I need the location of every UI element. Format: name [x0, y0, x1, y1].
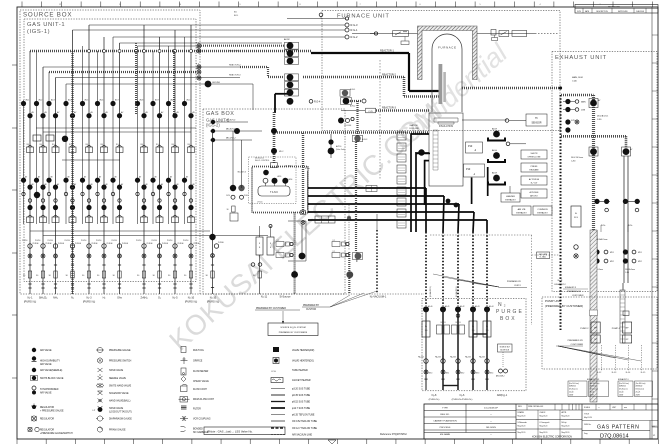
svg-text:PREPARED BY: PREPARED BY [507, 280, 522, 283]
hatched vertical x356 upper [355, 142, 357, 252]
svg-text:250W: 250W [636, 394, 641, 396]
svg-text:φ3.20 SUS TUBE: φ3.20 SUS TUBE [292, 389, 311, 391]
source system note box [268, 323, 318, 336]
exhaust main dotted line [560, 95, 562, 330]
svg-text:SOURCE N₂(),N₂ SYSTEM: SOURCE N₂(),N₂ SYSTEM [280, 327, 305, 329]
svg-text:FILTER: FILTER [193, 409, 201, 411]
hatched column x136 [135, 43, 137, 115]
elevator exhaust black pipes [411, 133, 429, 135]
svg-text:May.13.20: May.13.20 [518, 426, 526, 428]
svg-text:(SiH4/Cl2: (SiH4/Cl2 [619, 386, 626, 388]
purge line 3 [455, 306, 461, 312]
svg-text:R.G-2: R.G-2 [351, 35, 358, 39]
purge line 2 [440, 306, 446, 312]
gas line column 10 [174, 30, 176, 294]
svg-text:PURGE: PURGE [122, 243, 129, 245]
svg-text:R.G-1: R.G-1 [351, 28, 358, 32]
svg-text:HAND VALVE: HAND VALVE [109, 369, 124, 372]
svg-text:May.13.20: May.13.20 [518, 432, 526, 434]
purge line elbows [473, 333, 487, 335]
svg-text:PG50: PG50 [244, 195, 248, 197]
svg-text:N₂-14: N₂-14 [626, 372, 631, 374]
svg-text:COIL: COIL [271, 371, 277, 373]
svg-text:---: --- [490, 434, 492, 436]
svg-text:CUSTOMER: CUSTOMER [571, 344, 584, 346]
p10-2 box [466, 142, 483, 153]
svg-text:(SiH4/Cl2: (SiH4/Cl2 [590, 386, 597, 388]
svg-text:P10: P10 [466, 168, 471, 171]
gas unit-1 outline [24, 19, 196, 282]
svg-text:APPROVED: APPROVED [618, 10, 628, 13]
svg-text:B01-1: B01-1 [234, 15, 238, 17]
svg-text:PURGE: PURGE [496, 309, 524, 315]
title mini revision table [516, 409, 582, 411]
black pipes to purge box [308, 187, 426, 189]
svg-text:(PURG N₂/PURG N₂): (PURG N₂/PURG N₂) [452, 399, 473, 401]
exhaust spec boxes [568, 381, 587, 397]
svg-text:(LOCKOUT TAGOUT): (LOCKOUT TAGOUT) [109, 410, 132, 413]
svg-text:MV2: MV2 [610, 261, 614, 263]
frame right margin cells [651, 7, 653, 439]
svg-text:Fo: Fo [425, 326, 427, 328]
svg-text:PG250: PG250 [35, 240, 40, 242]
svg-text:REGULATOR: REGULATOR [40, 406, 54, 409]
big valve col4 [62, 136, 68, 142]
svg-text:1/1: 1/1 [653, 435, 656, 437]
svg-text:AV-40: AV-40 [428, 305, 433, 308]
svg-text:VALVE HEATER(DG): VALVE HEATER(DG) [292, 360, 314, 363]
reactor valve group 1 [287, 42, 294, 49]
svg-text:PURGE: PURGE [107, 243, 114, 245]
svg-text:F-2: F-2 [196, 47, 199, 49]
svg-text:BT/hm: BT/hm [305, 168, 310, 170]
tank feed valve box [271, 163, 278, 168]
exhaust small circles bottom [574, 245, 578, 249]
svg-text:PG250: PG250 [65, 240, 70, 242]
elevator bottom valves [446, 199, 451, 204]
svg-text:PRESS: PRESS [531, 166, 538, 168]
svg-text:REG NO.: REG NO. [440, 414, 450, 416]
svg-text:PURGE: PURGE [162, 243, 169, 245]
svg-text:FLOW CONT: FLOW CONT [193, 389, 207, 391]
svg-text:FLOW METER: FLOW METER [193, 371, 209, 373]
svg-text:PG250: PG250 [112, 240, 117, 242]
svg-text:N₂: N₂ [575, 213, 577, 215]
svg-text:REACTOR-1: REACTOR-1 [380, 50, 394, 53]
svg-text:PREPARED BY CUSTOMER: PREPARED BY CUSTOMER [256, 307, 286, 310]
exhaust pipe valve 1 [589, 99, 598, 108]
svg-text:F-5: F-5 [196, 74, 199, 76]
svg-text:PUMP UNIT: PUMP UNIT [545, 299, 562, 303]
svg-text:DG-Source): DG-Source) [636, 389, 645, 391]
svg-text:CV50: CV50 [226, 195, 230, 197]
svg-text:N₂: N₂ [498, 302, 508, 308]
svg-text:PG250: PG250 [183, 240, 188, 242]
reactor valve group 2 [287, 74, 294, 81]
purge line 4 [470, 306, 476, 312]
svg-text:AV-44: AV-44 [489, 305, 494, 308]
svg-text:PURGE: PURGE [46, 243, 53, 245]
svg-text:PG250: PG250 [22, 240, 27, 242]
watermark [163, 37, 513, 357]
svg-text:CR-3034: CR-3034 [344, 125, 351, 127]
svg-text:DIAPHRAGM GAUGE: DIAPHRAGM GAUGE [109, 418, 132, 421]
svg-text:M.Fujii: M.Fujii [562, 422, 568, 424]
bottom dashed boundary [200, 293, 424, 295]
svg-text:N₂-5: N₂-5 [173, 297, 179, 300]
cr valve [338, 118, 344, 124]
svg-text:(For DG Line): (For DG Line) [619, 383, 629, 385]
si-source valve cluster B [332, 242, 340, 247]
svg-text:(PURG N₂): (PURG N₂) [83, 301, 96, 304]
title right column [649, 421, 651, 440]
bus wire y84 [66, 83, 206, 85]
tank inner dashed box [249, 157, 296, 204]
svg-text:TITLE: TITLE [584, 414, 590, 416]
svg-text:EXHAUST: EXHAUST [516, 212, 527, 215]
svg-text:REVISIONS: REVISIONS [608, 7, 620, 9]
svg-text:PREPARED BY: PREPARED BY [303, 304, 320, 307]
svg-text:INSULATION: INSULATION [439, 125, 453, 128]
svg-text:COMMON: COMMON [537, 209, 548, 211]
svg-text:MS NAME: MS NAME [440, 433, 451, 436]
furnace area dashed divider [379, 60, 381, 180]
svg-text:T A N K: T A N K [270, 191, 278, 194]
svg-text:AIR VALVE(NEEDLE): AIR VALVE(NEEDLE) [40, 369, 62, 372]
svg-text:F-4: F-4 [196, 68, 199, 70]
fan to purge lines [433, 274, 499, 287]
svg-text:EXHAUST: EXHAUST [537, 212, 548, 215]
frame left ticks [12, 64, 17, 66]
purge line 5 [484, 306, 490, 312]
svg-text:BONDED: BONDED [193, 429, 203, 431]
svg-text:OD 12.7 TEFLON TUBE: OD 12.7 TEFLON TUBE [292, 428, 317, 430]
bus wire y30 [73, 29, 346, 31]
svg-text:(SiH4/Cl2: (SiH4/Cl2 [569, 386, 576, 388]
svg-text:AGV-2: AGV-2 [350, 105, 355, 108]
svg-text:EXHAUST UNIT: EXHAUST UNIT [555, 55, 607, 61]
svg-text:GROUND: GROUND [212, 82, 221, 84]
bus hatched pipe y72 [49, 71, 197, 73]
svg-text:O₂: O₂ [158, 297, 161, 300]
svg-text:SiH₂Cl₂: SiH₂Cl₂ [39, 297, 47, 300]
furnace unit outline [322, 11, 560, 131]
svg-text:APPR.: APPR. [562, 411, 568, 414]
svg-text:EXHAUST-1-3: EXHAUST-1-3 [587, 378, 599, 381]
svg-text:DG-Source): DG-Source) [619, 389, 628, 391]
n2 vacuum dotted line [376, 230, 378, 294]
svg-text:SWITS BLOCK VALVE: SWITS BLOCK VALVE [40, 377, 64, 380]
gas line column 8 [143, 25, 145, 294]
svg-text:SYM: SYM [577, 11, 581, 13]
purge box outline [422, 298, 526, 391]
svg-text:F U R N A C E: F U R N A C E [438, 46, 456, 50]
svg-text:Si-Source: Si-Source [280, 296, 292, 299]
svg-text:AV-42: AV-42 [460, 305, 465, 308]
frame top ticks [21, 2, 23, 8]
svg-text:φ6.35 TEFLON TUBE: φ6.35 TEFLON TUBE [292, 415, 315, 417]
svg-text:(Valve Tank): (Valve Tank) [336, 149, 345, 151]
svg-text:---: --- [490, 421, 492, 423]
svg-text:GAs: GAs [117, 297, 123, 300]
svg-text:VCR COUPLING: VCR COUPLING [193, 419, 211, 421]
svg-text:---: --- [490, 414, 492, 416]
svg-text:No-R: No-R [558, 280, 563, 282]
svg-text:DG-Source): DG-Source) [590, 389, 599, 391]
svg-text:N₂⇅: N₂⇅ [571, 119, 575, 122]
svg-text:MV1: MV1 [610, 252, 614, 254]
svg-text:EXHAUST-1: EXHAUST-1 [618, 378, 629, 381]
n2 flush box [571, 206, 581, 227]
hatched vertical x357 [356, 101, 358, 135]
svg-text:AV-2: AV-2 [39, 99, 43, 102]
reactor-1 black pipe [311, 52, 409, 54]
svg-text:PRESSURE GAUGE: PRESSURE GAUGE [109, 349, 131, 352]
svg-text:VACU ATM: VACU ATM [539, 253, 548, 256]
svg-text:HIGH DURABILITY: HIGH DURABILITY [40, 360, 60, 363]
svg-text:CHECK: CHECK [540, 412, 547, 414]
svg-text:PG250: PG250 [96, 240, 101, 242]
reactor-2 hatched pipe [303, 76, 404, 79]
exhaust unit outline [552, 52, 657, 292]
svg-text:MAIN: MAIN [581, 101, 586, 104]
bus wire y46 [138, 45, 200, 47]
bus wire y43 [120, 42, 283, 44]
heater valves with brackets [488, 138, 505, 141]
svg-text:AIR VALVE: AIR VALVE [40, 363, 52, 366]
title name [582, 420, 658, 422]
svg-text:PREPARED BY: PREPARED BY [568, 339, 584, 342]
svg-text:OPEN/CLOSE: OPEN/CLOSE [527, 157, 541, 159]
svg-text:PURGE: PURGE [178, 243, 185, 245]
svg-text:AIR VLV: AIR VLV [530, 195, 538, 198]
svg-text:(PREPARED BY CUSTOMER): (PREPARED BY CUSTOMER) [545, 304, 583, 308]
svg-text:SOURCE BOX: SOURCE BOX [23, 12, 72, 19]
svg-text:May.13.20: May.13.20 [562, 416, 570, 418]
svg-text:100: 100 [472, 330, 475, 332]
svg-text:N₂-11: N₂-11 [261, 296, 268, 299]
svg-text:PREPARED BY: PREPARED BY [567, 290, 582, 293]
svg-text:May.13.20: May.13.20 [562, 426, 570, 428]
svg-text:(PURG N₂): (PURG N₂) [185, 301, 198, 304]
av150 valve [330, 134, 332, 158]
svg-text:REACTOR-3: REACTOR-3 [382, 107, 396, 110]
gas line column 11 [190, 25, 192, 294]
svg-text:DDU A.5mm: DDU A.5mm [625, 268, 635, 271]
svg-text:⇅ N₂: ⇅ N₂ [628, 224, 633, 227]
svg-text:1/2→: 1/2→ [333, 251, 337, 253]
svg-text:B01: B01 [234, 12, 237, 14]
svg-text:REACTOR-2: REACTOR-2 [229, 64, 241, 67]
svg-text:SOLENOID VALVE: SOLENOID VALVE [109, 392, 129, 395]
title block [424, 404, 658, 439]
svg-text:REACTOR-1: REACTOR-1 [229, 50, 241, 53]
svg-text:MF-S/SIN: MF-S/SIN [486, 427, 496, 429]
svg-text:AV-H: AV-H [492, 172, 497, 175]
svg-text:REACTOR-2: REACTOR-2 [382, 74, 396, 77]
bus wire y25 [89, 24, 345, 26]
svg-text:※Note : GAS→(air)→ LSS Valve N: ※Note : GAS→(air)→ LSS Valve No. [207, 429, 253, 433]
svg-text:+ PRESSURE GAUGE: + PRESSURE GAUGE [40, 409, 64, 412]
tank [258, 186, 290, 196]
svg-text:REGULATOR: REGULATOR [40, 418, 54, 421]
svg-text:PURGE: PURGE [92, 243, 99, 245]
svg-text:BLOW KILN: BLOW KILN [500, 350, 510, 352]
hatch x303 tail symbol [301, 221, 305, 225]
bg sensor line [287, 18, 345, 20]
svg-text:PURGE: PURGE [75, 243, 82, 245]
svg-text:AV-5: AV-5 [85, 99, 89, 102]
svg-text:100: 100 [425, 330, 428, 332]
svg-text:R.G-4: R.G-4 [314, 101, 321, 104]
svg-text:AGV-1: AGV-1 [350, 88, 355, 91]
svg-text:AIR VALVE: AIR VALVE [40, 349, 52, 352]
furnace inner tube [432, 34, 462, 112]
svg-text:PRESSURE SWITCH: PRESSURE SWITCH [109, 361, 132, 363]
boat elevator housing [429, 113, 463, 186]
svg-text:(PURG N₂): (PURG N₂) [207, 301, 220, 304]
agv valve pair [342, 90, 348, 96]
exhaust hatched drop pipe [592, 95, 595, 232]
svg-text:A PURGE: A PURGE [530, 191, 540, 194]
svg-text:WATCH: WATCH [410, 124, 418, 127]
svg-text:N₂: N₂ [71, 297, 74, 300]
svg-text:RG253: RG253 [455, 322, 460, 324]
svg-text:SCALE: SCALE [584, 406, 591, 409]
svg-text:1/2→: 1/2→ [277, 240, 281, 242]
gas line column 2 [42, 67, 44, 294]
svg-text:φ6.35 SUS TUBE: φ6.35 SUS TUBE [292, 395, 311, 397]
gas line column 1 [29, 51, 31, 294]
svg-text:PURGE: PURGE [147, 243, 154, 245]
svg-text:SWITS HAND VALVE: SWITS HAND VALVE [109, 385, 132, 388]
svg-text:MASS FLOW CONT: MASS FLOW CONT [193, 398, 215, 401]
svg-text:N₂-1: N₂-1 [28, 297, 34, 300]
bus wire y78 [56, 77, 241, 79]
vacuum boundary dashed [430, 234, 532, 236]
furnace left damper line [352, 33, 418, 35]
svg-text:Fo: Fo [472, 326, 474, 328]
svg-text:1/2→: 1/2→ [333, 240, 337, 242]
svg-text:PUMP-1: PUMP-1 [612, 328, 621, 330]
svg-text:AV-8: AV-8 [140, 99, 144, 102]
title corp row [424, 432, 516, 434]
svg-text:MULTI DG: MULTI DG [193, 350, 204, 352]
exhaust duct band [590, 230, 597, 402]
svg-text:Reference DTQ29YSPGI: Reference DTQ29YSPGI [380, 433, 407, 436]
svg-text:May.13.20: May.13.20 [540, 416, 548, 418]
gas line column 6 [103, 37, 105, 294]
svg-text:CUSTOMER: CUSTOMER [572, 295, 584, 297]
svg-text:AIR,VACUUM LINE: AIR,VACUUM LINE [292, 434, 312, 437]
svg-text:DG-Source): DG-Source) [569, 389, 578, 391]
svg-text:TYPE: TYPE [442, 408, 448, 410]
svg-text:SHUTR: SHUTR [531, 153, 538, 155]
svg-text:AV-9: AV-9 [155, 99, 159, 102]
svg-text:SENSOR: SENSOR [531, 122, 541, 125]
svg-text:RG253: RG253 [440, 322, 445, 324]
svg-text:May.13.20: May.13.20 [540, 432, 548, 434]
svg-text:May.13.20: May.13.20 [562, 432, 570, 434]
tank valves [263, 170, 269, 176]
svg-text:N₂-VACUUM-1: N₂-VACUUM-1 [370, 296, 387, 299]
svg-text:1/2→: 1/2→ [277, 251, 281, 253]
svg-text:N₂-12: N₂-12 [597, 372, 602, 374]
svg-text:30: 30 [227, 209, 229, 211]
svg-text:HEATER: HEATER [506, 195, 515, 198]
flow boxes upper [33, 135, 41, 141]
heater exhaust box [501, 193, 520, 202]
svg-text:EXHAUST: EXHAUST [505, 199, 516, 202]
svg-text:mm: mm [624, 407, 627, 409]
reactor valve 7 [287, 98, 294, 105]
svg-text:C-80: C-80 [625, 272, 629, 274]
blow kiln box [498, 344, 513, 352]
svg-text:AV150: AV150 [336, 145, 341, 148]
svg-text:N₂-10: N₂-10 [210, 297, 217, 300]
svg-text:PG250: PG250 [81, 240, 86, 242]
svg-text:N₂-10: N₂-10 [188, 297, 195, 300]
dashed stub x349 [348, 205, 350, 250]
reactor-3 hatched pipe [341, 110, 365, 112]
svg-text:@ Note: @ Note [285, 165, 293, 168]
svg-text:MD-2: MD-2 [279, 151, 283, 153]
svg-text:R.G-3: R.G-3 [351, 23, 358, 27]
svg-text:VALVE HEATER(AIR): VALVE HEATER(AIR) [292, 349, 314, 352]
svg-text:REGULATOR: REGULATOR [40, 429, 54, 432]
exhaust components top [565, 99, 570, 104]
svg-text:DESCRIPTION: DESCRIPTION [596, 11, 608, 13]
svg-text:HAND VALVE: HAND VALVE [109, 407, 124, 410]
dotted pipes into purge box [425, 232, 427, 306]
svg-text:F-3: F-3 [196, 63, 199, 65]
svg-text:AIR VALVE: AIR VALVE [40, 391, 52, 394]
duct joint pump2 [590, 310, 598, 316]
svg-text:EXHAUST-2: EXHAUST-2 [554, 283, 566, 286]
svg-text:N₂-3: N₂-3 [87, 297, 93, 300]
vacu atm gas box [537, 252, 550, 259]
gas box wires [210, 130, 262, 132]
svg-text:CABINET PLANTATION: CABINET PLANTATION [433, 420, 457, 423]
gas line column 4 [72, 30, 74, 294]
gas box hatched pipe [273, 112, 276, 163]
svg-text:ZrNH₄: ZrNH₄ [141, 297, 148, 300]
svg-text:REACTOR-3: REACTOR-3 [229, 73, 241, 76]
furnace exhaust duct [462, 87, 561, 90]
svg-text:NEEDLE VALVE: NEEDLE VALVE [109, 377, 126, 380]
svg-text:OD 9.52 TEFLON TUBE: OD 9.52 TEFLON TUBE [292, 421, 317, 423]
svg-text:ORIFICE: ORIFICE [193, 361, 203, 363]
svg-text:L Form: L Form [257, 202, 263, 204]
svg-text:AV-1: AV-1 [26, 99, 30, 102]
svg-text:PG250: PG250 [152, 240, 157, 242]
valve stack to gasbox black elbow [275, 93, 288, 95]
svg-text:PG250: PG250 [167, 240, 172, 242]
svg-text:PURGE: PURGE [33, 243, 40, 245]
svg-text:MAIN, DUM: MAIN, DUM [572, 76, 583, 79]
svg-text:GAS UNIT-1: GAS UNIT-1 [27, 22, 65, 28]
svg-text:DOG IND: DOG IND [410, 128, 420, 130]
svg-text:F-1: F-1 [196, 42, 199, 44]
tank enclosure hatched box [252, 167, 308, 213]
svg-text:N₂ VLV: N₂ VLV [531, 183, 538, 185]
gas box outline [203, 109, 345, 294]
svg-text:CHECKED: CHECKED [636, 11, 645, 13]
common exhaust box [533, 206, 552, 215]
purge line 1 [423, 306, 429, 312]
svg-text:+PRESSURE GAUGE/SWITCH: +PRESSURE GAUGE/SWITCH [40, 432, 73, 435]
gas line column 5 [88, 25, 90, 294]
